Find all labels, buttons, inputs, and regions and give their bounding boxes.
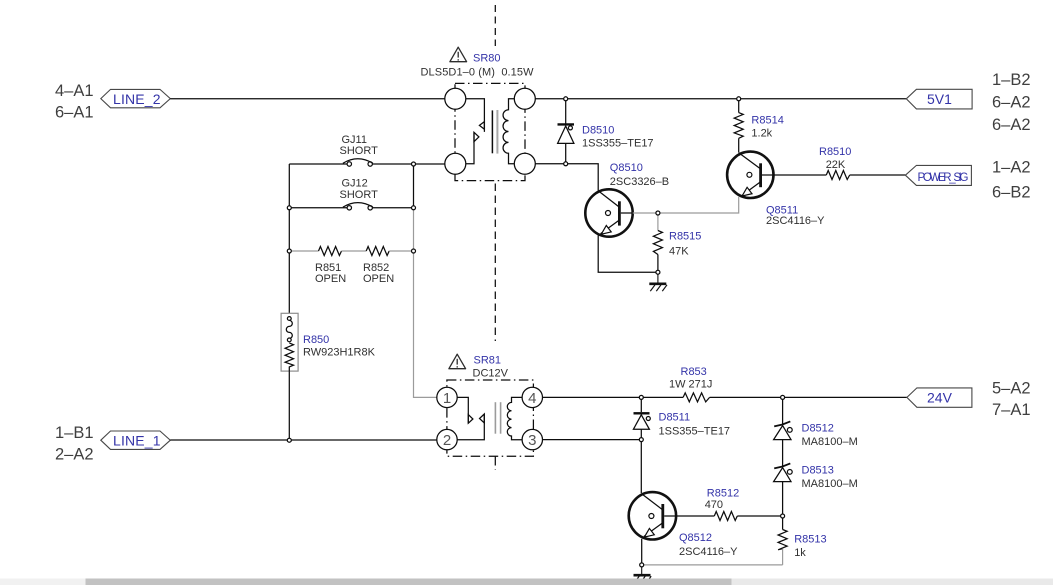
svg-text:R8512: R8512 [707,487,739,499]
svg-text:D8511: D8511 [659,412,691,424]
resistor R852 [366,247,389,256]
node R8515 bottom [656,270,660,274]
svg-text:5V1: 5V1 [927,91,952,107]
wire Q8512 emitter down [641,539,643,565]
ground under R8515 [649,272,667,291]
svg-text:R8514: R8514 [751,115,783,127]
wire Q8511 emitter to R8515 top (gray) [658,197,739,213]
wire SR80 TR to 5V1 [535,98,906,100]
relay SR81 outline box [447,380,534,456]
svg-text:Q8510: Q8510 [610,162,643,174]
svg-text:SR81: SR81 [474,355,502,367]
svg-text:4–A1: 4–A1 [55,82,94,100]
svg-text:2SC3326–B: 2SC3326–B [610,176,669,188]
svg-text:47K: 47K [669,246,689,258]
node D8512 top [781,395,785,399]
port LINE_2 [101,89,171,107]
zener D8513 [774,463,793,516]
svg-text:6–A1: 6–A1 [55,104,94,122]
svg-text:7–A1: 7–A1 [992,401,1031,419]
svg-text:R850: R850 [303,334,329,346]
wire left vertical bus [288,164,290,313]
SR81 switch lower contact [457,414,484,440]
resistor R8514 [734,99,743,153]
resistor R8513 [778,516,787,565]
SR81 core line left [494,402,496,434]
svg-text:OPEN: OPEN [363,273,394,285]
svg-text:OPEN: OPEN [315,273,346,285]
svg-text:1–B2: 1–B2 [992,71,1031,89]
svg-text:2SC4116–Y: 2SC4116–Y [679,546,738,558]
SR80 terminal TL [445,88,466,109]
svg-text:R853: R853 [681,366,707,378]
svg-text:22K: 22K [826,159,846,171]
node Q8512 emitter gnd [640,563,644,567]
SR80 terminal BR [514,153,535,174]
relay SR80 outline box [455,83,525,180]
warning triangle SR81 [449,354,466,369]
wire R850 to LINE_1 [288,371,290,440]
centerline (isolation dash line) top [494,5,496,46]
svg-text:R8513: R8513 [794,534,826,546]
SR81 coil [507,397,522,439]
svg-text:LINE_1: LINE_1 [113,432,161,448]
svg-text:MA8100–M: MA8100–M [802,436,858,448]
wire emitter junction to R8513 (gray) [642,564,783,566]
transistor Q8510 [585,189,632,236]
wire between R851 R852 [342,250,367,252]
svg-text:24V: 24V [927,390,953,406]
node R852 right [412,249,416,253]
node R8512 R8513 [781,514,785,518]
port 24V [907,388,972,407]
zener D8512 [774,397,793,466]
svg-text:D8513: D8513 [802,465,834,477]
svg-text:1–A2: 1–A2 [992,159,1031,177]
node LINE_1 R850 [287,438,291,442]
svg-text:GJ11: GJ11 [342,134,367,146]
node R8515 top [656,211,660,215]
svg-text:1: 1 [443,390,451,407]
port POWER_SIG [905,165,971,185]
node GJ11 right [412,162,416,166]
resistor R851 [289,250,318,252]
node GJ12 right [412,206,416,210]
SR81 terminal 4 [522,387,542,407]
resistor R850 (fusible) box [281,313,298,371]
svg-text:GJ12: GJ12 [342,178,368,190]
resistor R8515 [653,213,662,272]
svg-text:R8515: R8515 [669,231,701,243]
svg-text:4: 4 [528,390,536,407]
svg-text:R851: R851 [315,262,341,274]
scrollbar thumb [86,579,732,585]
node D8510 top [564,97,568,101]
node D8510 bottom [564,162,568,166]
diode D8511 [633,397,650,439]
SR80 core line left [491,110,493,153]
warning triangle SR80 [450,47,467,62]
svg-text:2–A2: 2–A2 [55,446,94,464]
svg-text:RW923H1R8K: RW923H1R8K [303,347,376,359]
svg-text:1–B1: 1–B1 [55,424,94,442]
SR80 switch upper contact [466,99,485,132]
svg-text:2SC4116–Y: 2SC4116–Y [766,215,825,227]
scrollbar track left [0,579,86,585]
svg-text:DLS5D1–0 (M) 0.15W: DLS5D1–0 (M) 0.15W [421,67,535,79]
svg-text:2: 2 [443,432,451,449]
SR80 switch lower contact [466,132,479,164]
SR80 core line right [496,110,498,154]
wire GJ11-GJ12 vertical [413,164,415,208]
transistor Q8512 [629,492,676,539]
svg-text:D8512: D8512 [802,423,834,435]
wire Q8511 base to POWER_SIG [774,174,827,176]
wire Q8510 base to R8515 (gray) [633,212,658,214]
svg-text:SHORT: SHORT [340,189,379,201]
svg-text:POWER_SIG: POWER_SIG [918,172,969,184]
SR80 terminal TR [514,88,535,109]
svg-text:1W 271J: 1W 271J [669,379,712,391]
wire LINE_2 to SR80 [170,98,445,100]
wire LINE_1 to SR81 [170,439,437,441]
node GJ12 left [287,206,291,210]
svg-text:3: 3 [528,432,536,449]
resistor R8512 [714,512,737,521]
svg-text:D8510: D8510 [582,125,614,137]
wire Q8512 base to R8512 [676,515,714,517]
svg-text:5–A2: 5–A2 [992,380,1031,398]
svg-text:1SS355–TE17: 1SS355–TE17 [582,138,654,150]
svg-text:R852: R852 [363,262,389,274]
wire SR80 BR to Q8510 [535,164,598,191]
svg-text:470: 470 [705,499,723,511]
node D8511 bottom [639,438,643,442]
node R8514 top [737,97,741,101]
svg-text:MA8100–M: MA8100–M [802,478,858,490]
wire SR81 pin4 to 24V [543,396,684,398]
R850 internals [285,317,293,372]
svg-text:SHORT: SHORT [340,145,379,157]
diode D8510 [558,99,575,164]
svg-text:SR80: SR80 [473,53,501,65]
svg-text:6–A2: 6–A2 [992,116,1031,134]
SR81 core line right [500,402,502,434]
ground under Q8512 [634,565,652,583]
transistor Q8511 [727,152,773,198]
svg-text:LINE_2: LINE_2 [113,91,161,107]
SR81 terminal 3 [522,429,542,449]
SR80 coil [503,99,514,164]
wire GJ11 row [289,163,347,165]
wire right vertical gray [414,208,437,398]
SR81 terminal 1 [437,387,457,407]
svg-text:1.2k: 1.2k [751,128,772,140]
wire GJ12 row [289,207,347,209]
SR81 terminal 2 [437,429,457,449]
resistor R853 [683,393,710,402]
port 5V1 [906,89,972,109]
svg-text:R8510: R8510 [819,146,851,158]
svg-text:6–B2: 6–B2 [992,184,1031,202]
wire SR81 pin3 row [543,439,642,441]
scrollbar track right [732,579,1053,585]
port LINE_1 [101,431,171,449]
wire Q8510 emitter down [598,235,658,272]
svg-text:Q8512: Q8512 [679,532,712,544]
SR80 terminal BL [445,153,466,174]
svg-text:1SS355–TE17: 1SS355–TE17 [659,426,731,438]
jumper GJ11 pads and arc [347,162,351,166]
svg-text:1k: 1k [794,547,806,559]
resistor R8510 [826,171,849,180]
centerline bottom [494,457,496,471]
svg-text:6–A2: 6–A2 [992,94,1031,112]
node R851 left [287,249,291,253]
wire D8511 to Q8512 collector [640,440,642,493]
jumper GJ12 pads and arc [347,206,351,210]
SR81 switch upper contact [457,397,473,423]
svg-text:DC12V: DC12V [473,368,509,380]
node D8511 top [639,395,643,399]
centerline middle [494,184,496,342]
